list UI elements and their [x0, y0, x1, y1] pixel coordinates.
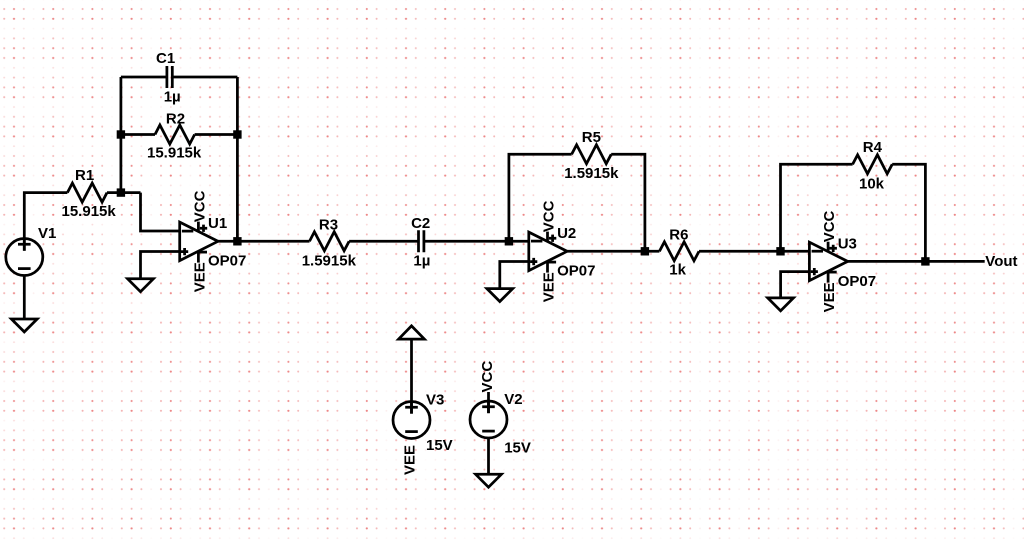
svg-text:C1: C1	[156, 50, 175, 67]
svg-text:1.5915k: 1.5915k	[302, 252, 357, 269]
svg-text:VEE: VEE	[821, 282, 838, 312]
svg-text:R6: R6	[669, 227, 688, 244]
svg-text:VCC: VCC	[479, 361, 496, 393]
svg-text:VCC: VCC	[821, 210, 838, 242]
svg-text:VEE: VEE	[191, 262, 208, 292]
svg-text:V2: V2	[504, 391, 522, 408]
svg-text:15.915k: 15.915k	[62, 203, 117, 220]
svg-text:10k: 10k	[859, 175, 885, 192]
svg-text:OP07: OP07	[208, 253, 246, 270]
svg-text:1µ: 1µ	[164, 89, 181, 106]
svg-text:U1: U1	[208, 215, 227, 232]
svg-text:Vout: Vout	[985, 253, 1017, 270]
svg-text:C2: C2	[411, 215, 430, 232]
svg-text:R4: R4	[863, 139, 883, 156]
svg-text:1.5915k: 1.5915k	[564, 165, 619, 182]
svg-text:VCC: VCC	[540, 200, 557, 232]
svg-text:R3: R3	[319, 217, 338, 234]
svg-text:U2: U2	[557, 225, 576, 242]
svg-text:VEE: VEE	[540, 272, 557, 302]
svg-text:1µ: 1µ	[413, 252, 430, 269]
svg-text:R2: R2	[166, 110, 185, 127]
svg-text:15V: 15V	[504, 439, 531, 456]
svg-text:R5: R5	[582, 129, 601, 146]
svg-text:VEE: VEE	[402, 445, 419, 475]
svg-text:V3: V3	[426, 392, 444, 409]
svg-text:1k: 1k	[669, 262, 686, 279]
svg-text:VCC: VCC	[191, 190, 208, 222]
svg-text:V1: V1	[38, 225, 56, 242]
svg-text:OP07: OP07	[557, 263, 595, 280]
svg-text:OP07: OP07	[838, 273, 876, 290]
svg-text:U3: U3	[838, 235, 857, 252]
svg-text:15.915k: 15.915k	[147, 145, 202, 162]
svg-text:R1: R1	[75, 167, 94, 184]
svg-text:15V: 15V	[426, 437, 453, 454]
